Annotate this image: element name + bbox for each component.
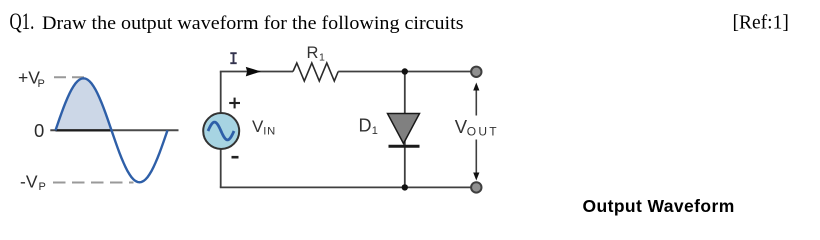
svg-text:V: V <box>252 117 264 136</box>
svg-text:D: D <box>359 116 372 136</box>
svg-text:Output Waveform: Output Waveform <box>583 196 735 216</box>
svg-text:P: P <box>39 181 46 193</box>
svg-text:Q1.: Q1. <box>10 9 35 34</box>
svg-text:IN: IN <box>263 125 276 137</box>
svg-text:-V: -V <box>20 171 38 191</box>
svg-text:[Ref:1]: [Ref:1] <box>733 13 789 34</box>
svg-text:P: P <box>38 78 45 90</box>
svg-text:1: 1 <box>372 125 378 137</box>
svg-text:OUT: OUT <box>467 125 499 139</box>
svg-text:Draw the output waveform for t: Draw the output waveform for the followi… <box>42 13 464 34</box>
svg-text:R: R <box>307 44 319 62</box>
svg-text:1: 1 <box>319 52 325 64</box>
svg-text:0: 0 <box>34 120 44 141</box>
